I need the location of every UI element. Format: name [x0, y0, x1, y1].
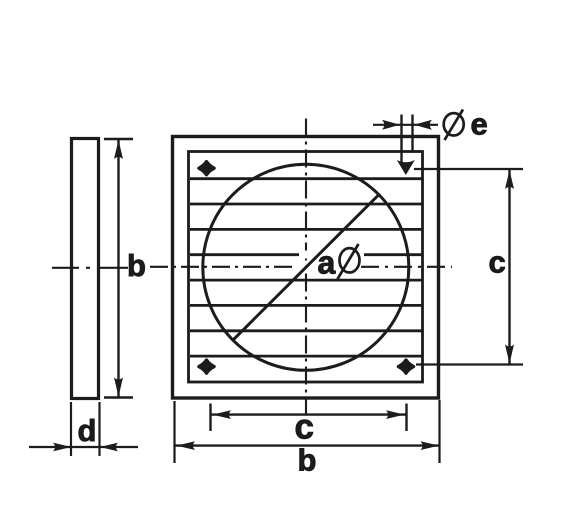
svg-text:a: a [318, 245, 336, 281]
svg-text:c: c [295, 408, 314, 447]
svg-text:b: b [127, 248, 146, 283]
svg-text:c: c [489, 245, 506, 280]
svg-text:b: b [298, 443, 317, 478]
svg-text:e: e [471, 107, 488, 142]
svg-text:d: d [78, 413, 97, 448]
